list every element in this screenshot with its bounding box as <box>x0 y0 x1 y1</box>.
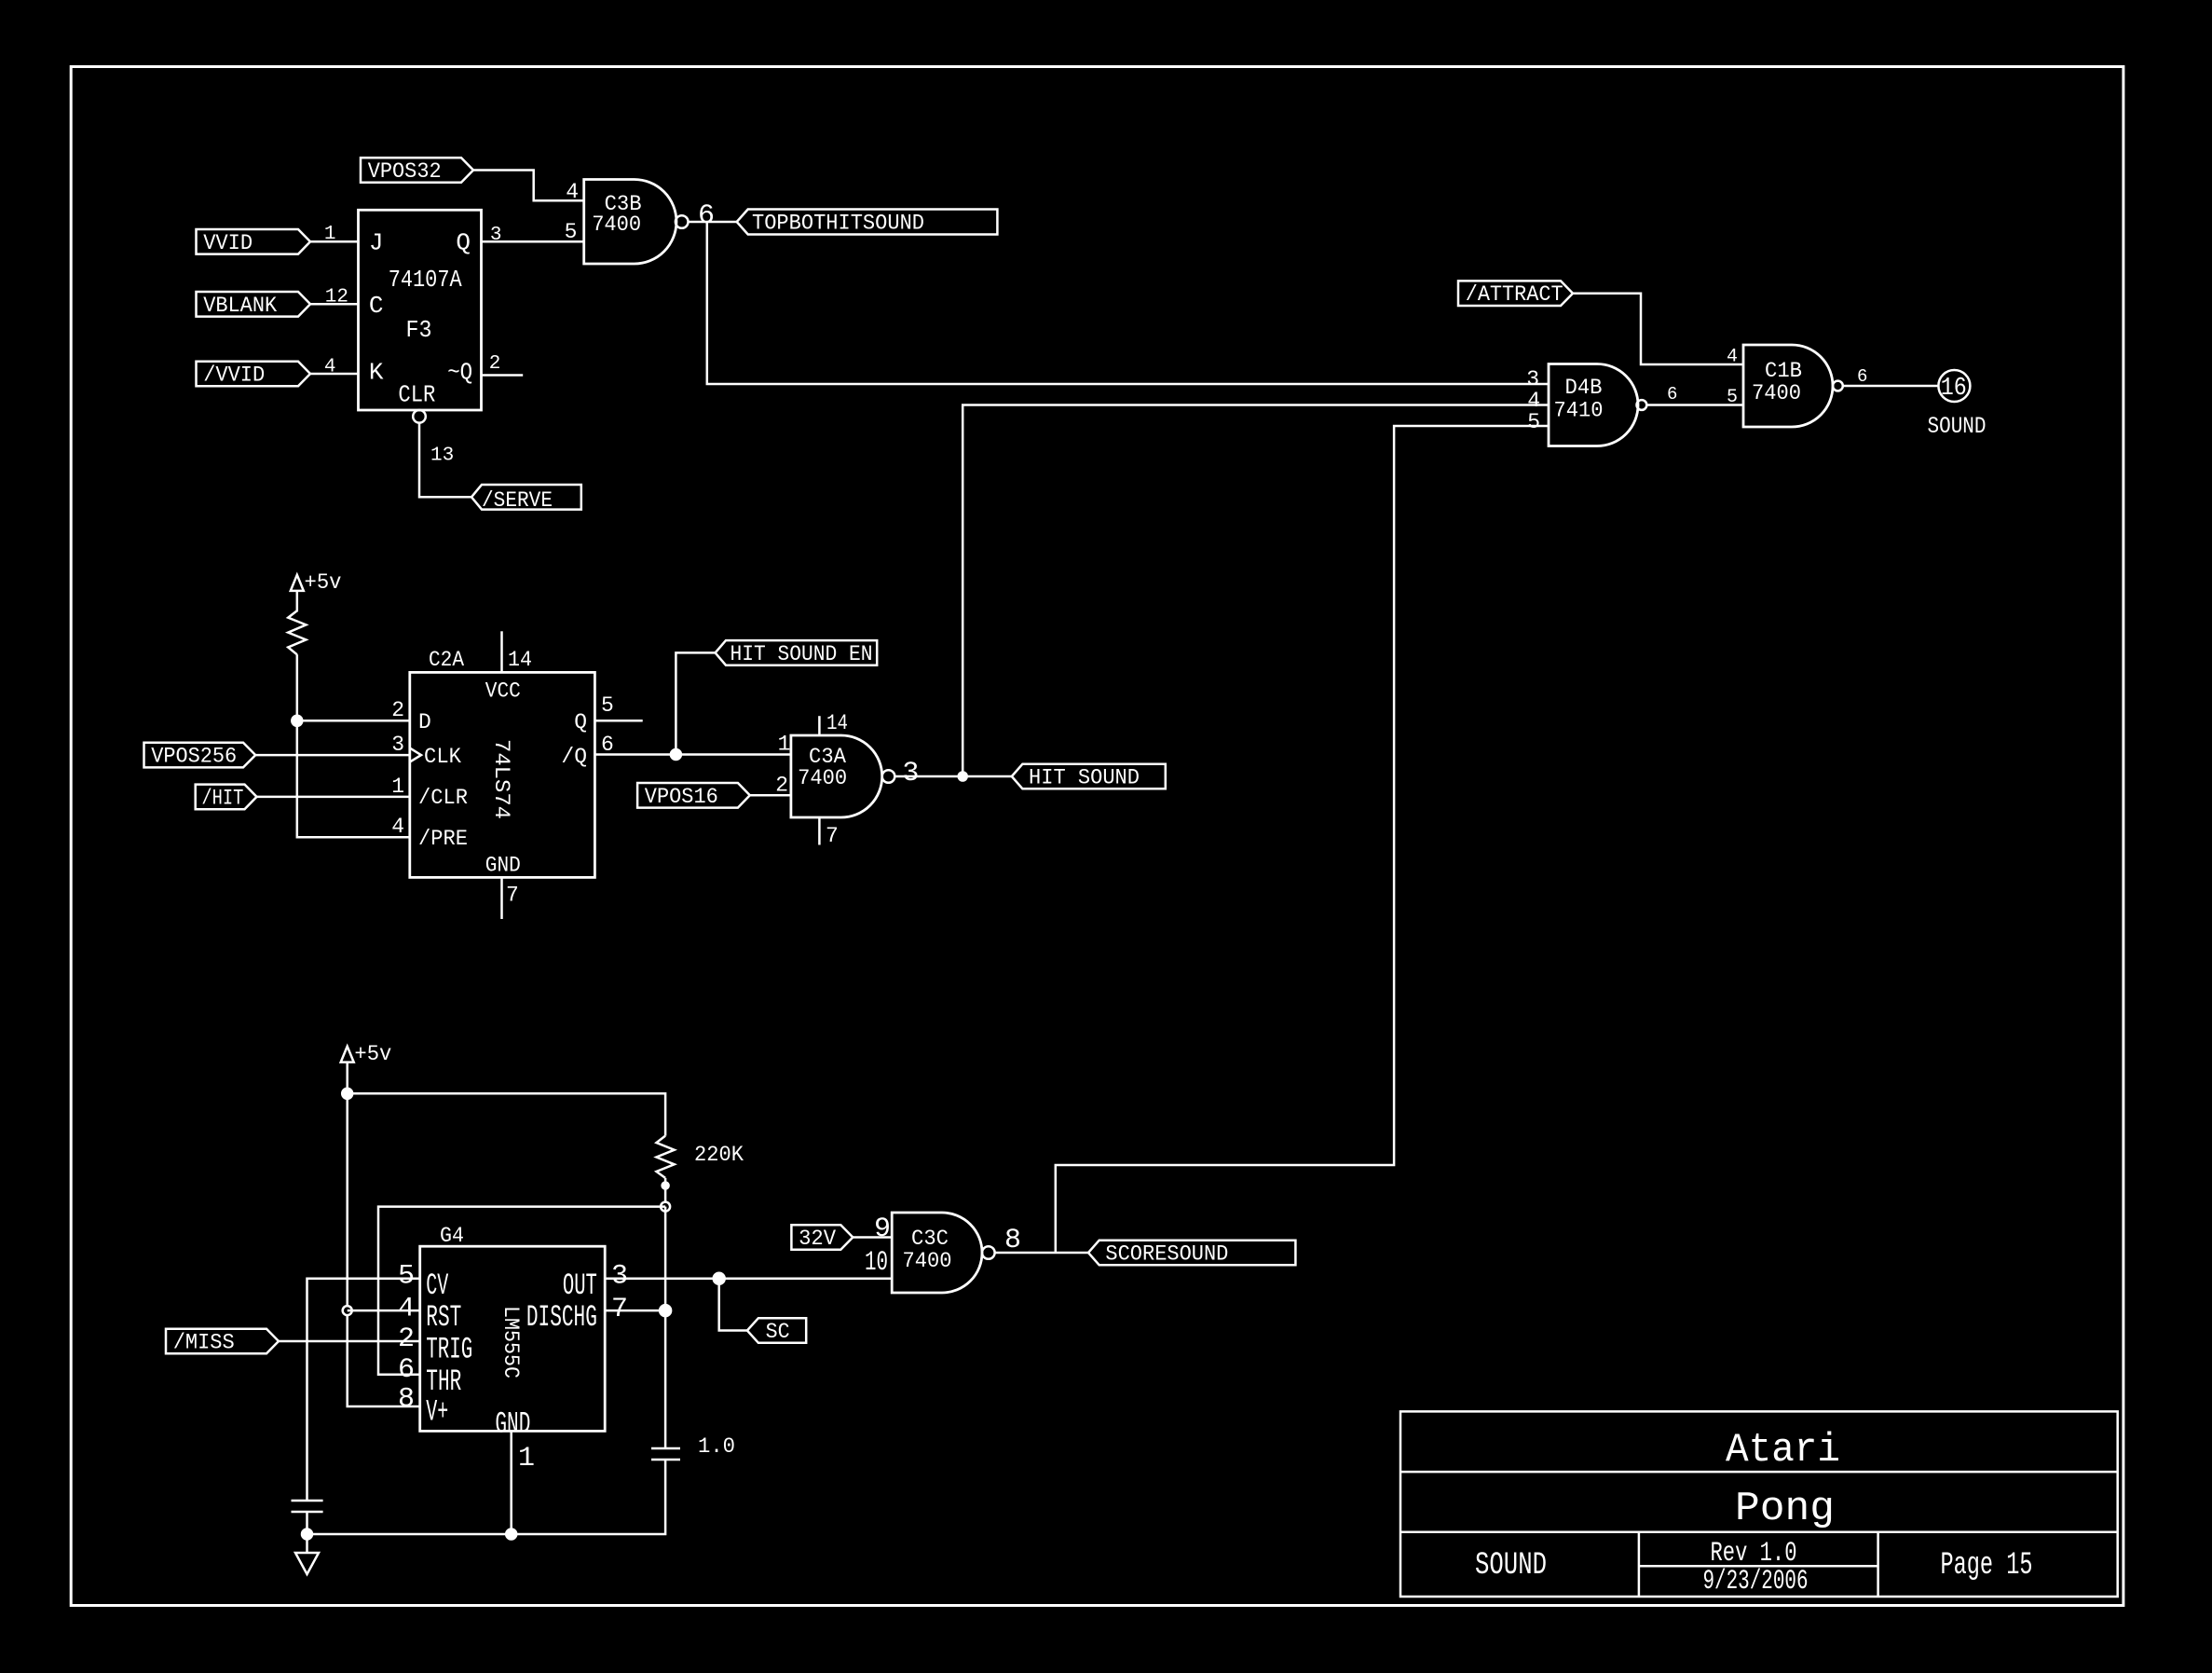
wire G4 OUT to C3C pin 10 <box>605 1277 892 1280</box>
net label 32V <box>791 1225 853 1251</box>
wire C2A /Q to C3A pin 1 <box>594 753 791 756</box>
svg-text:/HIT: /HIT <box>201 786 243 810</box>
wire /ATTRACT to C1B pin 4 <box>1573 294 1743 364</box>
wire supply node down to RST and G4 pin 8 (V+) <box>348 1093 420 1406</box>
svg-text:F3: F3 <box>406 316 432 344</box>
svg-text:VVID: VVID <box>203 231 253 255</box>
svg-text:14: 14 <box>826 711 848 735</box>
capacitor CV bypass <box>292 1501 323 1512</box>
+5v supply (C2A pull-up) <box>291 570 342 595</box>
junction ground rail left <box>302 1529 312 1540</box>
svg-text:5: 5 <box>1527 410 1540 434</box>
wire F3 Q to C3B pin 5 <box>482 240 584 243</box>
svg-text:GND: GND <box>485 854 521 878</box>
svg-text:4: 4 <box>398 1294 415 1325</box>
net label VVID <box>197 229 311 255</box>
svg-text:VPOS16: VPOS16 <box>645 785 718 809</box>
wire OUT node to SC <box>719 1279 747 1331</box>
junction ground rail at GND pin <box>506 1529 516 1540</box>
wire C3A output to HIT SOUND <box>894 775 1012 778</box>
svg-text:/ATTRACT: /ATTRACT <box>1466 282 1563 307</box>
svg-text:DISCHG: DISCHG <box>526 1300 597 1335</box>
svg-text:5: 5 <box>565 220 578 244</box>
wire 32V to C3C pin 9 <box>853 1236 892 1239</box>
svg-text:VPOS32: VPOS32 <box>368 159 442 184</box>
svg-text:1: 1 <box>391 775 404 799</box>
svg-text:~Q: ~Q <box>447 359 472 387</box>
junction HIT SOUND node <box>959 773 967 781</box>
net label /VVID <box>197 362 311 388</box>
wire G4 DISCHG to DISCHG node <box>605 1310 665 1312</box>
net label SC <box>747 1318 806 1344</box>
svg-text:TRIG: TRIG <box>426 1333 472 1367</box>
svg-text:1: 1 <box>518 1443 535 1474</box>
svg-text:5: 5 <box>398 1261 415 1293</box>
NAND gate C3A 7400 <box>791 735 894 817</box>
svg-text:Atari: Atari <box>1726 1427 1840 1474</box>
NAND gate C1B 7400 <box>1743 345 1843 427</box>
svg-text:HIT SOUND: HIT SOUND <box>1029 766 1140 790</box>
svg-text:/CLR: /CLR <box>418 786 468 810</box>
svg-text:7410: 7410 <box>1554 399 1604 423</box>
svg-text:J: J <box>369 228 384 256</box>
svg-text:C1B: C1B <box>1765 359 1802 383</box>
wire +5v to supply node <box>346 1063 348 1094</box>
svg-text:10: 10 <box>865 1247 888 1279</box>
svg-text:CLK: CLK <box>424 745 461 769</box>
svg-text:SC: SC <box>766 1320 790 1344</box>
svg-text:6: 6 <box>398 1354 415 1386</box>
svg-text:3: 3 <box>902 758 919 789</box>
net label HIT SOUND EN <box>716 640 878 666</box>
wire G4 CV to bypass capacitor <box>307 1279 420 1501</box>
svg-text:4: 4 <box>391 815 404 839</box>
F3 CLR bubble <box>413 410 426 423</box>
svg-text:6: 6 <box>1857 366 1867 387</box>
wire C1B output to terminal 16 <box>1843 385 1939 388</box>
junction DISCHG node <box>660 1305 671 1316</box>
output terminal 16 SOUND <box>1928 370 1987 440</box>
wire THR node to G4 pin 6 (THR) <box>378 1207 665 1375</box>
wire C2A Q stub <box>594 720 642 722</box>
svg-text:9/23/2006: 9/23/2006 <box>1703 1566 1809 1598</box>
svg-text:V+: V+ <box>426 1395 448 1430</box>
svg-text:1.0: 1.0 <box>698 1434 735 1459</box>
flip-flop C2A 74LS74 <box>410 648 595 878</box>
wire supply node to 220K resistor <box>348 1093 665 1135</box>
svg-text:VCC: VCC <box>485 679 521 704</box>
svg-text:7: 7 <box>506 884 519 908</box>
node RST open circle <box>343 1306 352 1315</box>
svg-text:2: 2 <box>489 353 501 375</box>
svg-text:+5v: +5v <box>305 570 342 595</box>
net label SCORESOUND <box>1088 1241 1295 1267</box>
wire VBLANK to F3 pin 12 (C) <box>310 303 359 306</box>
svg-text:C3C: C3C <box>911 1227 949 1251</box>
svg-text:16: 16 <box>1941 375 1967 403</box>
svg-text:7: 7 <box>826 824 839 848</box>
svg-text:HIT SOUND EN: HIT SOUND EN <box>731 642 873 666</box>
wire RST node to G4 pin 4 (RST) <box>348 1310 420 1312</box>
net label VBLANK <box>197 292 311 318</box>
wire HIT SOUND node to D4B pin 4 <box>963 405 1549 777</box>
svg-text:1: 1 <box>324 224 336 245</box>
svg-text:7400: 7400 <box>798 766 847 790</box>
NAND gate D4B 7410 <box>1549 364 1646 446</box>
wire capacitor to ground rail <box>306 1512 308 1534</box>
wire C2A pin 7 stub (GND) <box>500 877 503 919</box>
svg-text:/PRE: /PRE <box>418 827 468 851</box>
svg-text:D4B: D4B <box>1565 376 1603 400</box>
svg-text:/MISS: /MISS <box>173 1331 235 1355</box>
svg-text:Q: Q <box>574 710 587 734</box>
resistor pull-up to C2A D input <box>288 610 306 654</box>
svg-text:OUT: OUT <box>563 1268 597 1303</box>
svg-text:220K: 220K <box>694 1143 744 1167</box>
ground symbol <box>295 1534 319 1574</box>
svg-text:2: 2 <box>391 698 404 722</box>
wire +5v to pull-up resistor <box>296 591 299 611</box>
wire VPOS16 to C3A pin 2 <box>750 794 791 797</box>
junction +5v supply node <box>342 1089 352 1099</box>
svg-text:6: 6 <box>601 733 614 757</box>
svg-text:SCORESOUND: SCORESOUND <box>1105 1242 1228 1267</box>
wire /MISS to G4 pin 2 (TRIG) <box>279 1340 420 1343</box>
svg-text:C2A: C2A <box>429 648 464 672</box>
svg-text:4: 4 <box>324 357 336 378</box>
svg-text:4: 4 <box>1727 347 1738 368</box>
wire resistor to D node <box>296 654 299 720</box>
junction 220K bottom <box>662 1183 669 1189</box>
wire D node to C2A pin 4 (/PRE) <box>297 720 410 837</box>
svg-text:+5v: +5v <box>354 1042 391 1066</box>
svg-text:4: 4 <box>566 180 579 204</box>
svg-text:D: D <box>418 710 431 734</box>
wire VVID to F3 pin 1 (J) <box>310 240 359 243</box>
net label /MISS <box>166 1329 279 1355</box>
wire /HIT to C2A pin 1 (/CLR) <box>257 796 410 799</box>
svg-text:2: 2 <box>398 1323 415 1355</box>
junction D node <box>292 716 302 726</box>
svg-text:VPOS256: VPOS256 <box>151 745 237 769</box>
svg-text:5: 5 <box>601 693 614 718</box>
svg-text:Pong: Pong <box>1735 1486 1835 1532</box>
svg-text:14: 14 <box>508 648 532 672</box>
net label /SERVE <box>471 485 581 513</box>
NAND gate C3B 7400 <box>584 180 689 265</box>
svg-text:LM555C: LM555C <box>498 1306 523 1378</box>
svg-text:CLR: CLR <box>398 381 435 409</box>
wire 220K bottom lead <box>664 1178 667 1207</box>
wire C2A pin 14 stub (VCC) <box>500 631 503 672</box>
svg-text:TOPBOTHITSOUND: TOPBOTHITSOUND <box>752 212 924 236</box>
net label /HIT <box>196 785 257 811</box>
svg-text:/SERVE: /SERVE <box>482 488 553 513</box>
svg-text:3: 3 <box>391 733 404 757</box>
wire C3B output to TOPBOTHITSOUND <box>689 221 737 224</box>
svg-text:7400: 7400 <box>903 1249 952 1273</box>
svg-text:12: 12 <box>325 287 348 309</box>
net label VPOS32 <box>361 158 473 184</box>
svg-text:/Q: /Q <box>561 745 587 769</box>
svg-text:6: 6 <box>1667 384 1677 405</box>
svg-text:9: 9 <box>874 1214 891 1245</box>
net label /ATTRACT <box>1458 281 1573 307</box>
resistor 220K <box>657 1136 744 1178</box>
svg-text:74LS74: 74LS74 <box>489 739 513 819</box>
svg-text:GND: GND <box>495 1407 530 1442</box>
svg-text:Rev 1.0: Rev 1.0 <box>1711 1538 1797 1570</box>
net label HIT SOUND <box>1012 764 1166 790</box>
wire G4 pin 1 (GND) stub <box>510 1431 512 1534</box>
net label VPOS16 <box>637 783 750 809</box>
svg-text:G4: G4 <box>440 1224 464 1248</box>
svg-text:3: 3 <box>611 1261 628 1293</box>
+5v supply (555 section) <box>341 1042 392 1066</box>
wire SCORESOUND node to D4B pin 5 <box>1056 426 1549 1253</box>
svg-text:7400: 7400 <box>592 213 641 237</box>
svg-text:1: 1 <box>778 733 791 757</box>
svg-text:2: 2 <box>775 774 788 798</box>
node THR open circle <box>661 1202 670 1212</box>
svg-text:THR: THR <box>426 1364 461 1399</box>
junction /Q node <box>671 749 681 760</box>
wire ground rail <box>307 1460 666 1534</box>
svg-text:13: 13 <box>430 446 454 467</box>
svg-text:RST: RST <box>426 1300 461 1335</box>
svg-text:7400: 7400 <box>1752 381 1801 405</box>
timer G4 LM555C <box>420 1224 606 1442</box>
wire VPOS32 to C3B pin 4 <box>473 171 584 201</box>
wire F3 ~Q stub <box>482 374 524 377</box>
flip-flop F3 74107A <box>359 210 482 410</box>
svg-text:/VVID: /VVID <box>203 363 265 388</box>
wire C3C output to SCORESOUND <box>995 1252 1088 1255</box>
svg-text:Page 15: Page 15 <box>1941 1548 2033 1584</box>
wire D4B output to C1B pin 5 <box>1646 404 1743 406</box>
svg-text:74107A: 74107A <box>389 266 462 294</box>
net label TOPBOTHITSOUND <box>737 210 998 236</box>
wire C3A pin 7 stub <box>818 817 821 845</box>
svg-text:CV: CV <box>426 1268 448 1303</box>
net label VPOS256 <box>144 743 256 769</box>
junction OUT node <box>714 1273 725 1284</box>
wire TOPBOTHITSOUND node to D4B pin 3 <box>707 222 1549 384</box>
svg-text:SOUND: SOUND <box>1928 413 1987 440</box>
capacitor 1.0 <box>651 1434 735 1460</box>
wire C3A pin 14 stub <box>818 716 821 735</box>
svg-text:VBLANK: VBLANK <box>203 294 277 318</box>
svg-text:3: 3 <box>490 225 502 246</box>
svg-text:8: 8 <box>398 1384 415 1416</box>
wire VPOS256 to C2A pin 3 (CLK) <box>255 754 410 757</box>
svg-text:C: C <box>369 292 384 320</box>
wire THR node down to DISCHG node and 1.0 cap <box>664 1207 667 1448</box>
wire /Q node to HIT SOUND EN <box>676 652 715 754</box>
svg-text:5: 5 <box>1727 387 1738 408</box>
wire D node to C2A pin 2 (D) <box>297 720 410 722</box>
svg-text:Q: Q <box>456 228 471 256</box>
svg-text:K: K <box>369 359 384 387</box>
wire /VVID to F3 pin 4 (K) <box>310 373 359 376</box>
wire F3 CLR to /SERVE <box>419 423 471 498</box>
NAND gate C3C 7400 <box>892 1213 994 1293</box>
title block <box>1400 1411 2118 1597</box>
svg-text:SOUND: SOUND <box>1475 1548 1547 1584</box>
svg-text:32V: 32V <box>799 1227 836 1251</box>
